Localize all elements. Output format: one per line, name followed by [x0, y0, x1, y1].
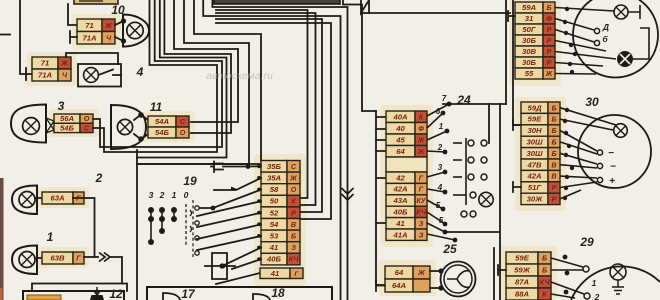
svg-text:Ж: Ж — [104, 21, 112, 30]
wire from top edge to switch column 24 — [343, 0, 376, 111]
svg-text:2: 2 — [95, 171, 103, 185]
svg-text:30Н: 30Н — [527, 126, 542, 135]
svg-text:87А: 87А — [515, 278, 529, 287]
wires relay block 28 to headlamp — [555, 7, 616, 74]
wire label 71А Ч (B10 row 2) — [77, 32, 115, 45]
svg-text:50: 50 — [270, 197, 279, 206]
svg-text:41А: 41А — [392, 230, 407, 239]
switch 19 contact fan wires — [197, 164, 261, 284]
svg-text:КЧ: КЧ — [289, 255, 300, 264]
svg-text:54Б: 54Б — [155, 128, 170, 137]
svg-text:Б: Б — [551, 115, 556, 124]
wire label 41А З (S24b row 6) — [386, 229, 427, 240]
designator 19 — [183, 174, 197, 188]
wire label 54 В (S19 row 6) — [261, 219, 300, 231]
svg-text:КУ: КУ — [416, 196, 426, 205]
headlamp 2 — [12, 186, 42, 215]
svg-text:31: 31 — [525, 14, 534, 23]
short wire stub left edge — [0, 34, 10, 36]
svg-text:КЧ: КЧ — [540, 278, 551, 287]
switch 19 lever — [211, 162, 223, 173]
wire from label 71Ж to lamp 4 housing — [66, 53, 118, 64]
vertical wires right side from top — [506, 0, 521, 125]
svg-text:Б: Б — [551, 103, 556, 112]
svg-text:Р: Р — [552, 183, 557, 192]
wire label 40 Ф (S24a row 2) — [386, 123, 427, 135]
terminal tick horn — [376, 280, 385, 291]
svg-text:Ж: Ж — [417, 147, 425, 156]
component cut off at top edge — [214, 0, 340, 4]
headlamp 1 — [12, 246, 42, 275]
svg-text:б: б — [602, 34, 608, 44]
svg-text:С: С — [180, 117, 186, 126]
svg-text:30Ж: 30Ж — [527, 195, 544, 204]
svg-text:54А: 54А — [155, 117, 169, 126]
svg-text:54: 54 — [270, 220, 279, 229]
svg-text:Р: Р — [547, 47, 552, 56]
svg-text:71А: 71А — [82, 33, 96, 42]
designator 3 — [58, 99, 65, 113]
svg-text:4: 4 — [437, 183, 443, 192]
svg-text:71: 71 — [41, 59, 50, 68]
svg-text:40А: 40А — [392, 112, 407, 121]
switch 19 position labels 3 2 1 0 — [149, 190, 189, 200]
wire label 41 З (S19 row 8) — [261, 242, 300, 254]
wire stub to unit 12 — [122, 284, 127, 292]
wire from lamp 2 label to junction — [73, 198, 95, 257]
svg-text:О: О — [291, 185, 297, 194]
svg-text:52: 52 — [270, 208, 279, 217]
wire label 30В Р (S28 row 5) — [515, 46, 555, 57]
wire label 59Е Б (S30 row 2) — [521, 113, 560, 124]
headlamp 11 — [111, 105, 148, 149]
relay 18 symbol — [253, 294, 270, 300]
wire label 41 З (S24b row 5) — [386, 218, 427, 229]
svg-text:1: 1 — [439, 122, 444, 131]
svg-text:4: 4 — [136, 65, 144, 79]
svg-text:55: 55 — [525, 69, 534, 78]
svg-text:59Е: 59Е — [528, 115, 543, 124]
wire label 53 Б (S19 row 7) — [261, 230, 300, 242]
switch 29 contact numbers — [592, 278, 600, 300]
svg-text:64А: 64А — [392, 281, 406, 290]
wire bundle from top edge (nested bends, 9 wires) — [93, 0, 348, 300]
down-arrow junction on centre wire — [342, 188, 354, 200]
wire from lamp 1 label with connector arrows — [32, 253, 122, 292]
wire label 35А Ж (S19 row 2) — [261, 172, 300, 184]
wire label 54Б О (B11 row 2) — [148, 127, 189, 138]
svg-text:Ж: Ж — [417, 135, 425, 144]
svg-text:Б: Б — [551, 126, 556, 135]
terminal ticks cluster 30 — [513, 120, 521, 192]
svg-text:42А: 42А — [392, 185, 407, 194]
wire label 30Ж Р (S30 row 9) — [521, 193, 560, 204]
wire label 63А Г (B2 row 1) — [42, 192, 84, 204]
svg-text:К: К — [542, 290, 547, 299]
wire label 30Ш Б (S30 row 4) — [521, 136, 560, 147]
svg-text:Г: Г — [419, 185, 424, 194]
svg-text:З: З — [419, 230, 424, 239]
svg-text:30Ш: 30Ш — [526, 138, 543, 147]
svg-text:30: 30 — [585, 95, 599, 109]
svg-text:2: 2 — [437, 143, 443, 152]
svg-text:5: 5 — [439, 216, 444, 225]
wire label 63В Г (B1 row 1) — [42, 252, 84, 264]
svg-text:1: 1 — [592, 278, 597, 288]
wire from 41Г to centre vertical — [303, 272, 335, 274]
svg-text:0: 0 — [184, 190, 189, 200]
svg-text:Ф: Ф — [418, 124, 424, 133]
wire label 64 Ж (S24a row 4) — [386, 146, 427, 158]
svg-text:30Ш: 30Ш — [526, 149, 543, 158]
svg-text:12: 12 — [109, 287, 123, 300]
switch 19 position pins — [148, 204, 192, 245]
terminal tick on 71А wire — [70, 31, 77, 43]
svg-text:Р: Р — [547, 25, 552, 34]
svg-text:42А: 42А — [526, 172, 541, 181]
watermark — [206, 70, 273, 82]
svg-text:1: 1 — [172, 190, 177, 200]
svg-text:64: 64 — [396, 147, 405, 156]
fuse label strip (cut) — [27, 295, 61, 300]
wire label 40А К (S24a row 1) — [386, 111, 427, 123]
wire label 59Ж Б (S29 row 2) — [506, 264, 551, 276]
svg-text:Ж: Ж — [60, 59, 68, 68]
svg-text:В: В — [551, 160, 556, 169]
designator 12 — [109, 287, 123, 300]
wire label 54Б С (B3 row 2) — [54, 123, 93, 132]
designator 29 — [579, 235, 594, 249]
wire label 56А О (B3 row 1) — [54, 114, 93, 123]
wire from top block to lamp-unit 10 — [68, 4, 77, 25]
svg-text:59Д: 59Д — [527, 103, 542, 112]
switch 24 contact fan — [427, 102, 457, 243]
svg-text:43А: 43А — [392, 196, 407, 205]
lamp unit 10 (clearance lamp) — [115, 15, 149, 47]
svg-text:45: 45 — [395, 135, 405, 144]
svg-text:10: 10 — [111, 3, 125, 17]
wire label 31 Ф (S28 row 2) — [515, 13, 555, 24]
svg-text:К: К — [291, 197, 296, 206]
svg-text:40Б: 40Б — [393, 208, 409, 217]
svg-text:КЧ: КЧ — [416, 208, 427, 217]
svg-text:58: 58 — [270, 185, 279, 194]
terminal labels Д б — [602, 22, 609, 44]
svg-text:47В: 47В — [526, 160, 542, 169]
svg-text:−: − — [608, 148, 614, 159]
svg-text:30В: 30В — [522, 47, 537, 56]
svg-text:З: З — [419, 219, 424, 228]
switch-lamp unit 4 (hood lamp with switch) — [78, 64, 121, 87]
svg-text:54Б: 54Б — [60, 124, 75, 133]
svg-text:41: 41 — [395, 219, 405, 228]
svg-text:35А: 35А — [267, 174, 281, 183]
designator 10 — [111, 3, 125, 17]
designator 17 — [181, 287, 196, 300]
svg-text:59Ж: 59Ж — [514, 266, 531, 275]
svg-text:71: 71 — [85, 21, 94, 30]
switch 24 actuator contacts — [453, 138, 493, 217]
wire label 30Н Б (S30 row 3) — [521, 125, 560, 136]
wire from page top-left to switch-lamp 4 — [20, 0, 32, 80]
svg-text:56А: 56А — [60, 114, 74, 123]
wires switch 29 — [551, 255, 584, 298]
svg-text:Б: Б — [551, 138, 556, 147]
long vertical wire to fuse box — [136, 150, 138, 300]
wire label 30Б Р (S28 row 6) — [515, 57, 555, 68]
svg-text:Б: Б — [542, 254, 547, 263]
wire label 58 О (S19 row 3) — [261, 184, 300, 196]
wire pair from top edge to relay block — [361, 0, 510, 13]
wire label 42А В (S30 row 7) — [521, 170, 560, 181]
wire label 40Б КЧ (S19 row 9) — [261, 253, 300, 265]
wire label 71 Ж (B10 row 1) — [77, 19, 115, 32]
svg-text:3: 3 — [149, 190, 154, 200]
svg-text:30Б: 30Б — [522, 58, 537, 67]
wire label 54А С (B11 row 1) — [148, 116, 189, 127]
svg-text:40: 40 — [395, 124, 405, 133]
svg-text:Ж: Ж — [417, 268, 425, 277]
svg-text:41: 41 — [270, 269, 280, 278]
svg-text:Б: Б — [551, 149, 556, 158]
svg-text:3: 3 — [58, 99, 65, 113]
wire label 35Б С (S19 row 1) — [261, 161, 300, 173]
svg-text:88А: 88А — [515, 290, 529, 299]
svg-text:Г: Г — [419, 173, 424, 182]
switch 19 contact row (dashed) — [193, 200, 199, 258]
designator 4 — [136, 65, 144, 79]
wire label 30Ш Б (S30 row 5) — [521, 148, 560, 159]
designator 24 — [456, 93, 471, 107]
wires from top component to centre connector — [216, 10, 331, 219]
svg-text:19: 19 — [183, 174, 197, 188]
wire label 64А (B25 row 2) — [385, 279, 430, 292]
fuse box outline bottom left — [23, 291, 124, 300]
svg-text:Ф: Ф — [546, 14, 552, 23]
svg-text:В: В — [291, 220, 296, 229]
wire label 59А Б (S28 row 1) — [515, 2, 555, 13]
wire label 88А К (S29 row 4) — [506, 288, 551, 300]
svg-text:40Б: 40Б — [266, 255, 282, 264]
designator 18 — [271, 286, 285, 300]
instrument unit 30 — [578, 115, 651, 188]
wire label 87А КЧ (S29 row 3) — [506, 276, 551, 288]
svg-text:2: 2 — [594, 292, 600, 300]
svg-text:18: 18 — [271, 286, 285, 300]
svg-text:автосхема.ru: автосхема.ru — [206, 70, 273, 82]
svg-text:63В: 63В — [50, 254, 65, 263]
designator 25 — [442, 242, 457, 256]
svg-text:Б: Б — [546, 3, 551, 12]
relay 17 symbol — [163, 293, 180, 300]
svg-text:6: 6 — [436, 107, 441, 116]
wire label 42А Г (S24b row 2) — [386, 183, 427, 194]
svg-text:51Г: 51Г — [528, 183, 542, 192]
wire label 55 Ж (S28 row 7) — [515, 68, 555, 79]
unit 12 (sound signal) — [90, 287, 104, 300]
svg-text:Д: Д — [602, 22, 609, 32]
svg-text:Ж: Ж — [545, 69, 553, 78]
svg-text:5: 5 — [436, 201, 441, 210]
headlamp unit top right — [573, 0, 658, 78]
terminal tick 59Ж — [498, 265, 506, 275]
svg-text:−: − — [610, 162, 616, 173]
svg-text:+: + — [609, 176, 615, 187]
wire label 41 Г (separate, below connector) — [260, 268, 303, 279]
svg-text:59А: 59А — [522, 3, 536, 12]
svg-text:50Г: 50Г — [522, 25, 536, 34]
designator 11 — [150, 100, 163, 114]
headlamp 3 (parking/side lamp) — [11, 105, 54, 143]
switch 24 contact numbers — [436, 94, 447, 225]
svg-text:Р: Р — [291, 208, 296, 217]
svg-text:41: 41 — [269, 243, 279, 252]
svg-text:1: 1 — [47, 230, 54, 244]
svg-text:59Е: 59Е — [515, 254, 530, 263]
designator 30 — [585, 95, 599, 109]
wire label 43А КУ (S24b row 3) — [386, 195, 427, 206]
svg-text:11: 11 — [150, 100, 163, 114]
svg-text:С: С — [291, 162, 297, 171]
vertical feed bus left of switch 24 — [376, 111, 386, 285]
wire label 45 Ж (S24a row 3) — [386, 134, 427, 146]
svg-text:В: В — [551, 172, 556, 181]
empty connector cell — [386, 157, 427, 172]
wire from long vertical to connector row 35Б — [137, 164, 268, 166]
relay box 17/18 outline — [147, 287, 332, 300]
wire label 50 К (S19 row 4) — [261, 195, 300, 207]
wire label 30Б Р (S28 row 4) — [515, 35, 555, 46]
svg-text:63А: 63А — [50, 194, 64, 203]
switch unit 29 — [571, 264, 660, 300]
svg-text:Р: Р — [547, 58, 552, 67]
svg-text:30Б: 30Б — [522, 36, 537, 45]
wire label 47В В (S30 row 6) — [521, 159, 560, 170]
svg-text:О: О — [84, 114, 90, 123]
wires cluster 30 — [560, 108, 616, 201]
designator 1 — [47, 230, 54, 244]
svg-text:Г: Г — [76, 254, 81, 263]
wire label 51Г Р (S30 row 8) — [521, 182, 560, 193]
svg-text:Ж: Ж — [289, 174, 297, 183]
svg-text:Р: Р — [547, 36, 552, 45]
wire label 40Б КЧ (S24b row 4) — [386, 206, 427, 217]
svg-text:53: 53 — [270, 232, 279, 241]
svg-text:О: О — [180, 128, 186, 137]
svg-text:Б: Б — [291, 232, 296, 241]
wire label 50Г Р (S28 row 3) — [515, 24, 555, 35]
terminal signs - - + — [608, 148, 616, 187]
svg-text:71А: 71А — [38, 71, 52, 80]
wire label 59Е Б (S29 row 1) — [506, 252, 551, 264]
svg-text:64: 64 — [395, 268, 404, 277]
wire label 71А Ч (B4 row 2) — [32, 69, 71, 81]
designator 2 — [95, 171, 103, 185]
svg-text:25: 25 — [442, 242, 457, 256]
horn 25 — [430, 262, 476, 297]
svg-text:29: 29 — [579, 235, 594, 249]
svg-text:7: 7 — [442, 94, 447, 103]
svg-text:35Б: 35Б — [267, 162, 282, 171]
terminal tick 31Ф — [508, 11, 515, 21]
svg-text:17: 17 — [181, 287, 196, 300]
wire label 42 Г (S24b row 1) — [386, 172, 427, 183]
svg-text:С: С — [84, 124, 90, 133]
paper edge shading left — [0, 178, 4, 300]
svg-text:Б: Б — [542, 266, 547, 275]
svg-text:2: 2 — [159, 190, 165, 200]
wire label 71 Ж (B4 row 1) — [32, 57, 71, 69]
svg-text:К: К — [419, 112, 424, 121]
wire label 52 Р (S19 row 5) — [261, 207, 300, 219]
svg-text:42: 42 — [395, 173, 405, 182]
connector block top (cut off at page top) — [74, 0, 118, 4]
svg-text:З: З — [291, 243, 296, 252]
svg-text:Р: Р — [552, 195, 557, 204]
wires right of switch 24 — [443, 102, 506, 300]
switch 19 lower contact bracket — [205, 253, 235, 279]
svg-text:3: 3 — [438, 163, 443, 172]
wire label 64 Ж (B25 row 1) — [385, 266, 430, 279]
wire label 59Д Б (S30 row 1) — [521, 102, 560, 113]
